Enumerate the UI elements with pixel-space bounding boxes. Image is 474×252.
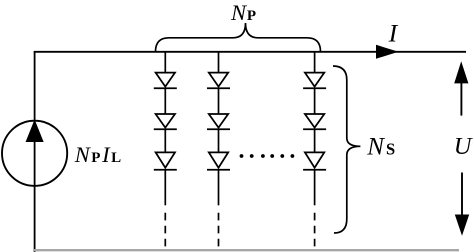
wire: col3 solid tail <box>314 170 316 206</box>
diode D3 (col1 row3) <box>154 129 177 170</box>
wire: bottom rail <box>34 249 459 251</box>
wire: top rail <box>34 51 466 53</box>
brace NS (vertical) <box>333 66 360 233</box>
diode D6 (col2 row3) <box>207 129 230 170</box>
diode D5 (col2 row2) <box>207 88 230 129</box>
svg-text:NP: NP <box>230 0 257 25</box>
wire: col3 dashed tail <box>314 213 316 247</box>
diode D2 (col1 row2) <box>154 88 177 129</box>
diode D7 (col3 row1) <box>303 51 326 88</box>
current source NP*IL <box>2 121 67 186</box>
brace NP (horizontal) <box>156 23 321 52</box>
wire: col1 dashed tail <box>164 213 166 247</box>
arrow: U down (right side) <box>455 173 469 236</box>
wire: col2 dashed tail <box>218 213 220 247</box>
ellipsis dots between col2 and col3 <box>240 154 295 158</box>
wire: col2 solid tail <box>218 170 220 206</box>
svg-text:NS: NS <box>366 134 397 161</box>
diode D8 (col3 row2) <box>303 88 326 129</box>
wire: left vertical <box>34 51 36 252</box>
wire: col1 solid tail <box>164 170 166 206</box>
diode D4 (col2 row1) <box>207 51 230 88</box>
arrow: U up (right side) <box>454 61 468 115</box>
diode D9 (col3 row3) <box>303 129 326 170</box>
svg-text:NPIL: NPIL <box>74 142 123 167</box>
diode D1 (col1 row1) <box>154 51 177 88</box>
svg-text:I: I <box>388 18 399 47</box>
arrow: current I on top rail <box>376 45 399 59</box>
svg-text:U: U <box>454 133 474 160</box>
